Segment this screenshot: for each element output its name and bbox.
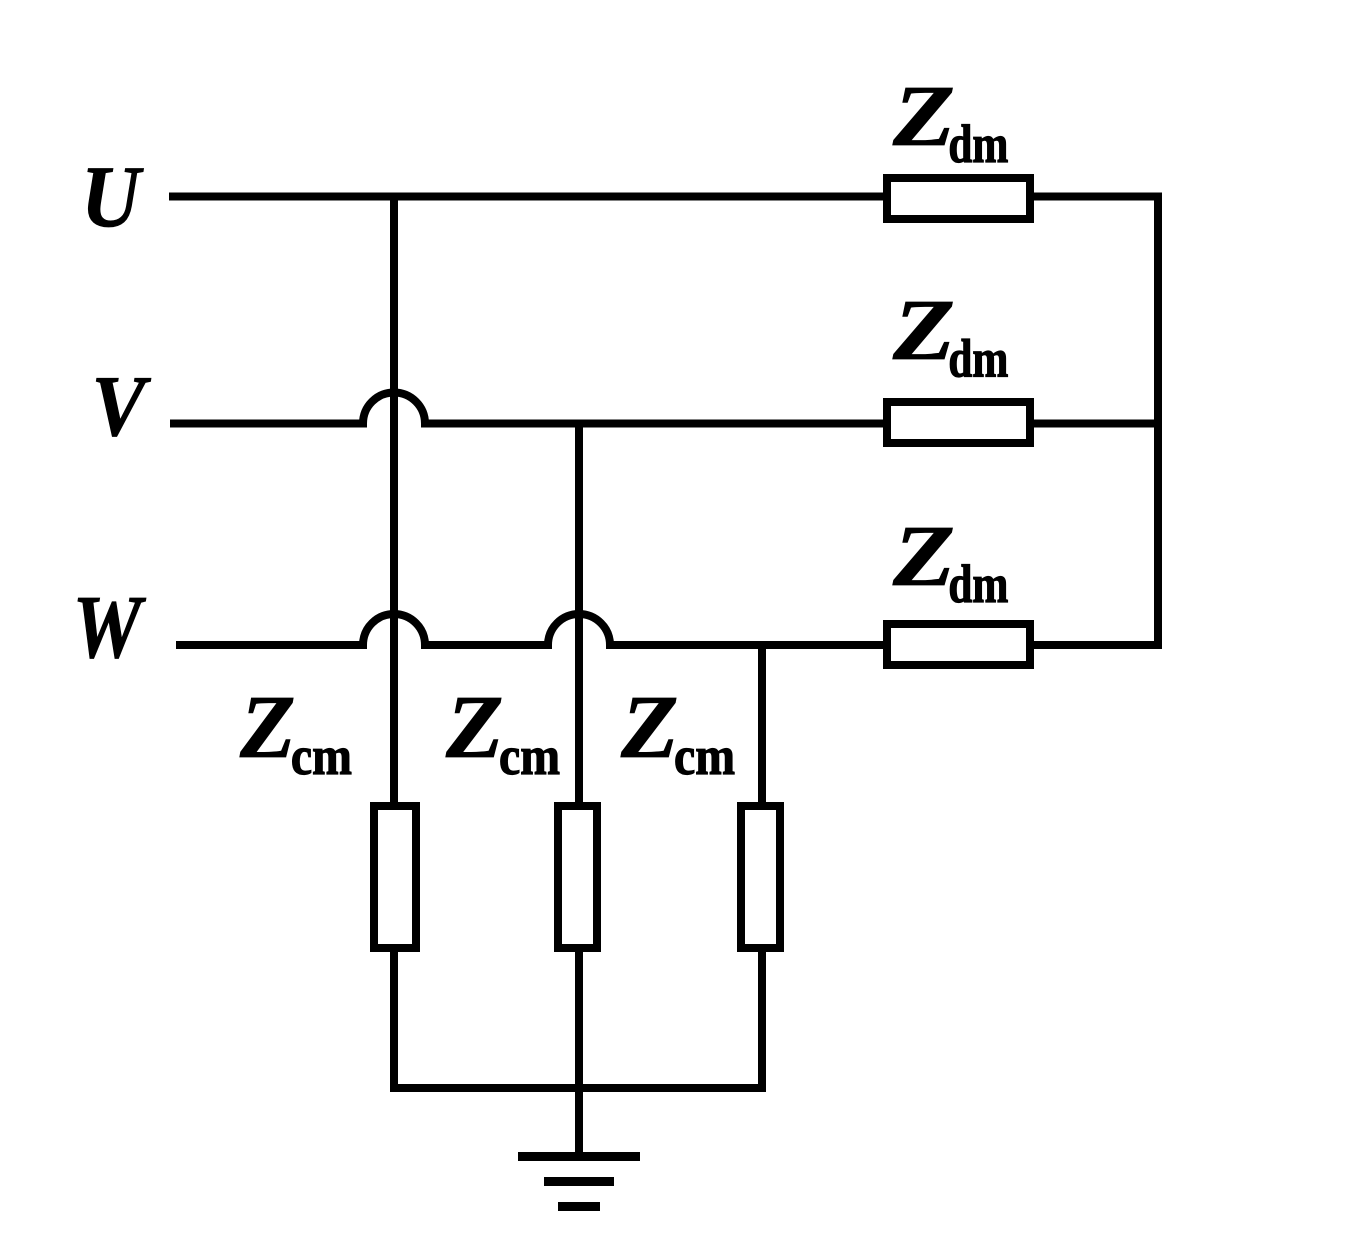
svg-text:Z: Z <box>445 678 504 777</box>
svg-text:Z: Z <box>892 507 955 604</box>
svg-text:Z: Z <box>892 67 955 164</box>
svg-text:cm: cm <box>674 726 735 786</box>
svg-text:dm: dm <box>948 554 1008 614</box>
svg-text:cm: cm <box>499 726 560 786</box>
svg-text:V: V <box>92 357 152 454</box>
svg-text:W: W <box>73 578 147 677</box>
svg-text:dm: dm <box>948 114 1008 174</box>
svg-text:U: U <box>81 149 144 246</box>
svg-text:Z: Z <box>620 678 679 777</box>
svg-text:cm: cm <box>291 726 352 786</box>
svg-text:Z: Z <box>892 281 955 378</box>
svg-text:Z: Z <box>239 678 296 777</box>
svg-text:dm: dm <box>948 329 1008 389</box>
